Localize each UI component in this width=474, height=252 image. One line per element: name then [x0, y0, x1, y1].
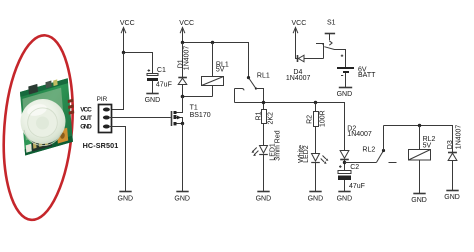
ground under RL2 [411, 194, 427, 205]
trimmer potentiometer [57, 128, 68, 144]
diode D3 1N4007 [447, 125, 463, 191]
power VCC (relay rail) [179, 20, 194, 42]
relay coil RL2 5V [409, 126, 436, 194]
LED1 3mm Red [252, 130, 282, 160]
junction rail/RL1 coil [211, 41, 214, 44]
svg-text:GND: GND [80, 124, 92, 131]
connector PIR HC-SR501 [80, 96, 118, 150]
svg-text:1N4007: 1N4007 [455, 125, 462, 150]
svg-text:100R: 100R [320, 110, 327, 127]
capacitor C2 47uF [338, 164, 365, 192]
bottom header pins block [31, 136, 52, 151]
svg-text:HC-SR501: HC-SR501 [83, 141, 119, 150]
svg-text:BS170: BS170 [190, 112, 211, 119]
svg-text:C1: C1 [157, 67, 166, 74]
wire LED2 to ground [315, 163, 317, 192]
svg-text:5V: 5V [423, 143, 432, 150]
resistor R1 2K2 [256, 110, 275, 146]
svg-text:GND: GND [174, 195, 190, 202]
transistor T1 BS170 [172, 97, 211, 127]
svg-text:1N4007: 1N4007 [286, 75, 311, 82]
junction drain node [181, 95, 185, 99]
relay contact RL2 [362, 126, 396, 163]
wire top rail VCC to RL1 contact [183, 43, 249, 78]
wire junction to RL2 contact [345, 162, 377, 164]
svg-text:GND: GND [145, 97, 161, 104]
ground under T1 [174, 192, 190, 203]
svg-text:D3: D3 [447, 140, 454, 149]
svg-text:1N4007: 1N4007 [347, 131, 372, 138]
svg-text:PIR: PIR [97, 96, 108, 103]
wire VCC to C1 [124, 53, 153, 74]
svg-text:RL1: RL1 [257, 73, 270, 80]
ground under C2 [337, 192, 353, 203]
svg-text:VCC: VCC [179, 20, 194, 27]
junction bus/R1 [262, 101, 265, 104]
svg-text:1N4007: 1N4007 [184, 46, 191, 71]
svg-text:GND: GND [444, 194, 460, 201]
LED2 White [298, 145, 329, 164]
red ellipse around photo [0, 33, 79, 223]
svg-text:GND: GND [411, 197, 427, 204]
resistor R2 100R [307, 103, 327, 154]
svg-text:GND: GND [256, 195, 272, 202]
ground under D3 [444, 191, 460, 202]
PIR module photo group [0, 33, 79, 223]
svg-text:3mm Red: 3mm Red [275, 130, 282, 160]
svg-text:T1: T1 [190, 104, 198, 111]
svg-text:LED2: LED2 [303, 145, 310, 163]
relay contact RL1 [235, 73, 270, 110]
ground under LED1 [256, 192, 272, 203]
white connector bottom-left [26, 144, 32, 153]
ground under PIR [118, 192, 134, 203]
power VCC (battery feed) [292, 20, 307, 58]
svg-text:R2: R2 [307, 115, 314, 124]
battery 6V BATT [337, 55, 376, 88]
junction bus/R2 [314, 101, 317, 104]
capacitor C1 47uF [147, 67, 172, 88]
junction rail/D1 [181, 41, 184, 44]
svg-text:GND: GND [308, 195, 324, 202]
switch S1 (push-to-make) [322, 20, 346, 67]
svg-text:VCC: VCC [292, 20, 307, 27]
svg-text:GND: GND [337, 91, 353, 98]
svg-text:R1: R1 [256, 111, 263, 120]
wire VCC down to PIR pin 1 [110, 53, 124, 110]
fresnel lens dome [21, 99, 66, 144]
svg-text:C2: C2 [350, 164, 359, 171]
power VCC (PIR supply) [120, 20, 135, 52]
junction rail/RL2 coil [418, 124, 421, 127]
ground under battery [337, 88, 353, 99]
wire PIR OUT to T1 gate [110, 117, 171, 119]
capacitor on top edge [28, 84, 38, 95]
junction D2/C2/RL2 contact [343, 161, 346, 164]
svg-text:5V: 5V [216, 67, 225, 74]
svg-text:BATT: BATT [358, 72, 376, 79]
svg-text:S1: S1 [327, 20, 336, 27]
wire D1/coil to T1 drain [183, 96, 213, 98]
wire T1 source to ground [182, 124, 184, 192]
diode D4 1N4007 [286, 55, 324, 82]
ground under C1 [145, 94, 161, 104]
PIR sensor PCB [20, 74, 77, 155]
svg-text:47uF: 47uF [349, 183, 365, 190]
svg-text:2K2: 2K2 [268, 112, 275, 125]
svg-text:VCC: VCC [120, 20, 135, 27]
svg-text:47uF: 47uF [156, 81, 172, 88]
relay coil RL1 5V [202, 43, 229, 97]
wire contact bus to LEDs and D2 [235, 103, 345, 151]
svg-text:GND: GND [337, 195, 353, 202]
diode D1 1N4007 [177, 43, 190, 97]
svg-text:GND: GND [118, 195, 134, 202]
wire D4 to switch S1 [316, 44, 324, 59]
wire right rail [384, 126, 453, 153]
svg-text:RL2: RL2 [362, 147, 375, 154]
right side 3-pin header [68, 99, 75, 115]
junction VCC/C1/PIR [122, 51, 125, 54]
svg-text:VCC: VCC [80, 107, 92, 114]
wire PIR GND pin down [110, 127, 126, 192]
ground under LED2 [308, 192, 324, 203]
wire C1 to ground [152, 81, 154, 94]
diode D2 1N4007 [340, 126, 372, 171]
svg-text:OUT: OUT [80, 115, 92, 122]
wire LED1 to ground [263, 155, 265, 192]
